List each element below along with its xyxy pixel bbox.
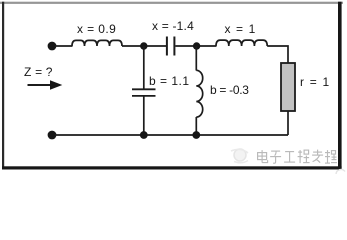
watermark text 电子工程专辑 (hand-drawn glyphs) [258,150,337,164]
svg-text:b = 1.1: b = 1.1 [149,74,190,88]
inductor L1 [72,40,122,46]
inductor L3 shunt [196,70,202,117]
wire top-left from terminal to L1 [55,45,73,47]
专 [312,150,323,163]
wire resistor bottom to rail [287,112,289,136]
resistor R1 [281,63,295,111]
junction dot bottom L3 [192,131,200,139]
wire bottom rail [55,134,288,136]
wire shunt inductor L3 upper lead [195,46,197,71]
wire shunt inductor L3 lower lead [195,117,197,135]
svg-text:x = -1.4: x = -1.4 [152,19,194,33]
frame (decorative border) [0,2,343,170]
capacitor C1 [167,37,175,56]
terminal dot bottom-left [48,131,57,140]
arrow input impedance [28,80,63,90]
工 [284,152,295,163]
svg-text:Z = ?: Z = ? [24,65,53,79]
watermark logo icon [231,149,248,163]
wire C1 to L2 [175,45,216,47]
junction dot bottom C2 [140,131,148,139]
svg-text:x = 0.9: x = 0.9 [77,22,116,36]
svg-text:x = 1: x = 1 [225,22,257,36]
子 [270,151,281,163]
wire L1 to capacitor C1 [122,45,166,47]
svg-text:b = -0.3: b = -0.3 [210,83,249,97]
capacitor C2 shunt [132,89,156,96]
node B junction dot [193,42,200,49]
terminal dot top-left [48,42,57,51]
wire shunt capacitor C2 lower lead [143,97,145,136]
电 [258,150,268,163]
faint corner mark outside frame [336,169,345,174]
wire L2 to resistor top [267,46,288,63]
inductor L2 [216,40,267,46]
wire shunt capacitor C2 upper lead [143,46,145,89]
svg-text:r = 1: r = 1 [300,75,330,89]
程 [298,150,310,163]
node A junction dot [140,42,147,49]
辑 [325,150,337,163]
